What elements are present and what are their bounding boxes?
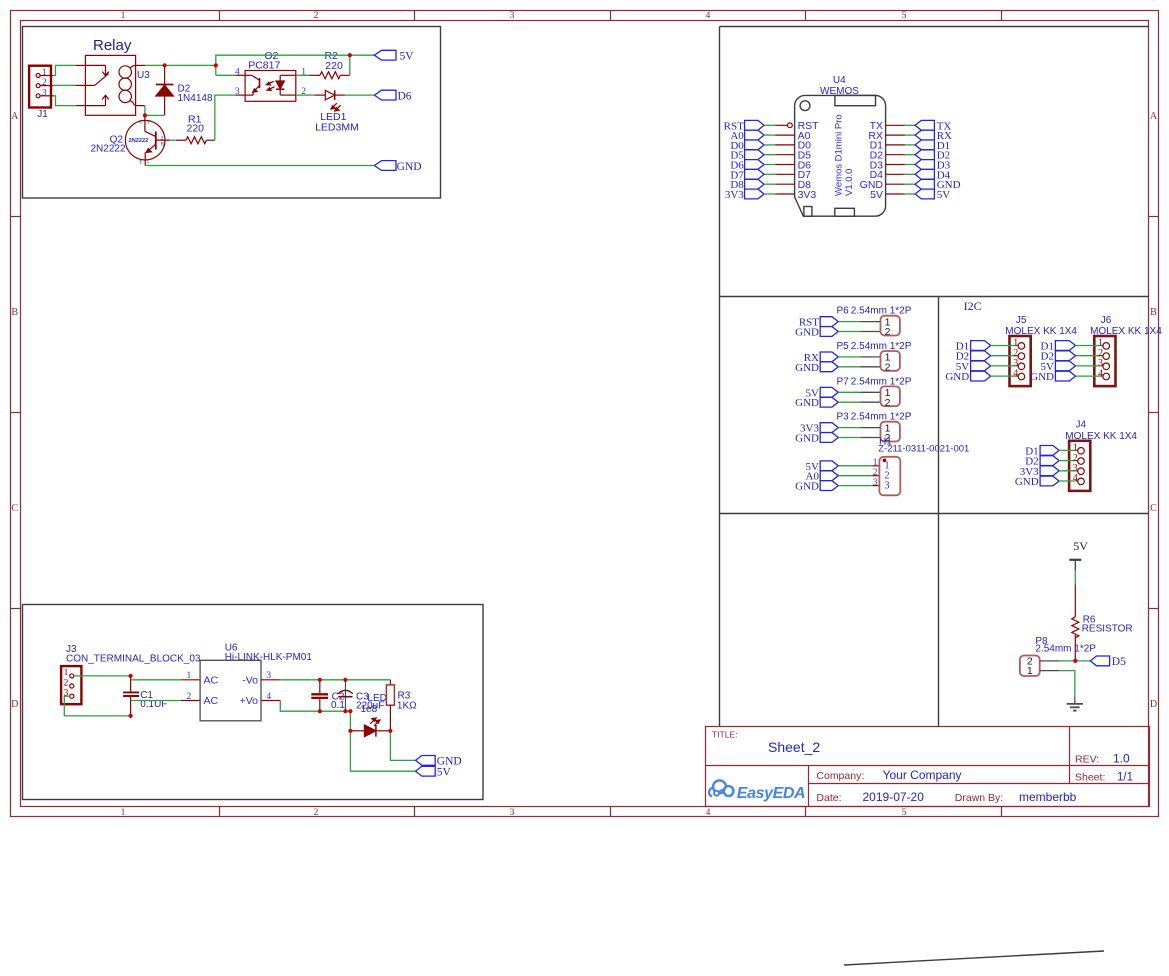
svg-text:4: 4 — [706, 11, 711, 21]
svg-text:1: 1 — [121, 808, 126, 818]
svg-text:2N2222: 2N2222 — [129, 138, 149, 144]
svg-text:5V: 5V — [400, 51, 415, 63]
svg-text:GND: GND — [795, 327, 819, 339]
svg-text:+Vo: +Vo — [240, 695, 259, 707]
svg-text:GND: GND — [1015, 476, 1039, 488]
svg-text:A: A — [1150, 111, 1158, 122]
svg-text:2: 2 — [314, 808, 319, 818]
svg-text:2: 2 — [873, 468, 878, 478]
svg-text:TITLE:: TITLE: — [712, 730, 738, 740]
svg-text:GND: GND — [945, 371, 969, 383]
svg-text:220: 220 — [187, 122, 205, 134]
svg-text:PC817: PC817 — [248, 59, 280, 71]
svg-text:2.54mm 1*2P: 2.54mm 1*2P — [1035, 644, 1096, 655]
svg-text:B: B — [1150, 307, 1157, 318]
svg-text:Drawn By:: Drawn By: — [955, 792, 1003, 804]
svg-text:3: 3 — [884, 481, 889, 492]
svg-text:GND: GND — [795, 481, 819, 493]
svg-text:Your Company: Your Company — [883, 768, 962, 782]
svg-text:5V: 5V — [870, 189, 883, 201]
svg-text:1: 1 — [64, 668, 69, 678]
svg-text:GND: GND — [795, 433, 819, 445]
svg-text:CON_TERMINAL_BLOCK_03: CON_TERMINAL_BLOCK_03 — [66, 653, 201, 664]
svg-text:2: 2 — [64, 678, 69, 688]
svg-text:B: B — [11, 307, 18, 318]
svg-text:1: 1 — [42, 68, 47, 78]
svg-text:J6: J6 — [1101, 315, 1112, 326]
svg-text:2.54mm 1*2P: 2.54mm 1*2P — [851, 306, 912, 317]
svg-text:0.1: 0.1 — [331, 700, 345, 711]
svg-text:Z-211-0311-0021-001: Z-211-0311-0021-001 — [878, 444, 969, 455]
svg-text:Sheet:: Sheet: — [1075, 772, 1105, 784]
svg-text:3: 3 — [42, 88, 47, 98]
svg-text:AC: AC — [204, 695, 219, 707]
svg-text:P7: P7 — [837, 376, 850, 387]
svg-text:AC: AC — [204, 674, 219, 686]
svg-text:P5: P5 — [837, 341, 850, 352]
svg-text:Relay: Relay — [93, 37, 132, 54]
svg-text:5: 5 — [902, 11, 907, 21]
svg-text:3V3: 3V3 — [798, 189, 817, 201]
svg-text:220: 220 — [325, 60, 343, 72]
svg-text:5V: 5V — [437, 766, 452, 778]
svg-text:C: C — [11, 503, 18, 514]
svg-text:D: D — [11, 699, 18, 710]
svg-text:J4: J4 — [1076, 420, 1087, 431]
svg-text:2N2222: 2N2222 — [91, 144, 126, 155]
svg-text:3: 3 — [510, 808, 515, 818]
svg-text:I2C: I2C — [964, 299, 982, 313]
svg-text:P3: P3 — [837, 412, 850, 423]
svg-text:A: A — [11, 111, 19, 122]
svg-text:3: 3 — [510, 11, 515, 21]
svg-text:EasyEDA: EasyEDA — [737, 785, 805, 802]
svg-text:GND: GND — [795, 362, 819, 374]
svg-text:P6: P6 — [837, 306, 850, 317]
svg-text:2019-07-20: 2019-07-20 — [863, 790, 925, 804]
svg-text:memberbb: memberbb — [1019, 790, 1077, 804]
svg-text:J1: J1 — [37, 109, 48, 120]
svg-text:2: 2 — [885, 326, 891, 338]
svg-text:1.0: 1.0 — [1113, 752, 1130, 766]
svg-text:RESISTOR: RESISTOR — [1082, 624, 1133, 635]
svg-text:4: 4 — [1073, 473, 1078, 484]
svg-text:LED3MM: LED3MM — [315, 121, 359, 133]
svg-text:GND: GND — [1030, 371, 1054, 383]
svg-text:2: 2 — [885, 362, 891, 374]
svg-text:Company:: Company: — [816, 770, 864, 782]
svg-text:-Vo: -Vo — [242, 674, 258, 686]
svg-text:Date:: Date: — [816, 792, 841, 804]
svg-text:1e8: 1e8 — [361, 704, 378, 715]
svg-text:U4: U4 — [833, 75, 846, 86]
svg-text:1: 1 — [1027, 665, 1033, 677]
svg-text:1KΩ: 1KΩ — [397, 701, 417, 712]
svg-text:1N4148: 1N4148 — [178, 93, 213, 104]
svg-text:4: 4 — [706, 808, 711, 818]
svg-text:D5: D5 — [1112, 656, 1126, 668]
svg-text:2.54mm 1*2P: 2.54mm 1*2P — [851, 376, 912, 387]
svg-text:1: 1 — [873, 458, 878, 468]
svg-text:5: 5 — [902, 808, 907, 818]
svg-text:1: 1 — [121, 11, 126, 21]
svg-text:1/1: 1/1 — [1117, 772, 1133, 784]
svg-text:Sheet_2: Sheet_2 — [768, 739, 820, 755]
svg-text:2.54mm 1*2P: 2.54mm 1*2P — [851, 412, 912, 423]
svg-text:5V: 5V — [1073, 539, 1088, 553]
svg-text:C: C — [1150, 503, 1157, 514]
svg-text:V1.0.0: V1.0.0 — [844, 169, 855, 196]
svg-text:Hi-LINK-HLK-PM01: Hi-LINK-HLK-PM01 — [225, 652, 313, 663]
svg-text:D: D — [1150, 699, 1157, 710]
svg-text:J5: J5 — [1016, 315, 1027, 326]
svg-text:U3: U3 — [137, 70, 150, 81]
svg-text:4: 4 — [1098, 368, 1103, 379]
svg-text:3: 3 — [873, 478, 878, 488]
svg-text:2: 2 — [885, 397, 891, 409]
svg-text:2.54mm 1*2P: 2.54mm 1*2P — [851, 341, 912, 352]
svg-text:REV:: REV: — [1075, 754, 1099, 766]
svg-text:2: 2 — [42, 78, 47, 88]
svg-text:D6: D6 — [398, 91, 412, 103]
svg-text:GND: GND — [397, 161, 422, 173]
svg-text:2: 2 — [314, 11, 319, 21]
svg-text:3V3: 3V3 — [725, 189, 744, 201]
svg-text:5V: 5V — [937, 189, 951, 201]
svg-text:GND: GND — [795, 397, 819, 409]
svg-text:4: 4 — [1013, 368, 1018, 379]
